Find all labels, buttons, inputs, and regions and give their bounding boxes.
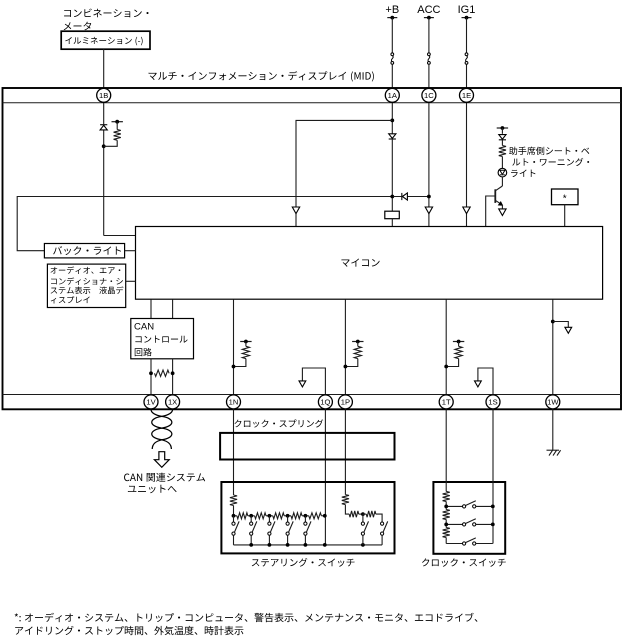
wire 1S into box [492, 409, 494, 543]
wire 1N from micom [233, 299, 235, 394]
1Q output stub [302, 368, 325, 395]
svg-text:1E: 1E [462, 91, 471, 100]
inline connector on IG1 [465, 53, 468, 56]
svg-text:1T: 1T [442, 398, 451, 407]
resistor R9 [445, 506, 447, 509]
wire 1P below [344, 409, 346, 494]
wire 1T into box [445, 409, 447, 491]
resistor R7 [363, 513, 366, 515]
steering switch label [252, 558, 355, 567]
svg-text:*: * [563, 194, 567, 205]
supply tap (seat belt light) [497, 127, 508, 129]
svg-text:1V: 1V [146, 398, 156, 407]
footnote line 1 [15, 613, 478, 622]
wire 1E internal [466, 102, 468, 226]
pin 1B [97, 88, 111, 102]
resistor R6 [349, 511, 359, 517]
wire 1T from micom [445, 299, 447, 394]
svg-text:1Q: 1Q [320, 398, 330, 407]
ladder node 5 [304, 514, 308, 518]
switch SW9 [446, 523, 462, 525]
clock switch box [433, 482, 505, 554]
ladder resistor 1 [234, 515, 237, 517]
resistor R5 (1P feed) [342, 495, 349, 505]
input arrow 1C [425, 207, 432, 214]
svg-text:1X: 1X [168, 398, 177, 407]
steering switch box [221, 482, 394, 553]
input arrow at x296 [292, 207, 299, 214]
dimmer bus wire y196.5 [17, 197, 392, 251]
node junction 1B/resistor [102, 144, 106, 148]
ladder node 3 [268, 514, 272, 518]
svg-text:IG1: IG1 [458, 4, 476, 16]
svg-text:CAN: CAN [134, 322, 154, 333]
clock switch label [422, 558, 506, 566]
pin 1X [166, 395, 180, 409]
wire 1Q below [324, 409, 326, 545]
resistor R10 [445, 524, 447, 527]
diode D2 on 1A line [389, 138, 396, 140]
pullup resistor at 1T [453, 341, 464, 343]
wire ACC to MID [428, 64, 430, 88]
switch common bus [234, 544, 383, 546]
microcomputer box [136, 227, 603, 300]
pin 1A [385, 88, 399, 102]
resistor R8 [443, 491, 450, 501]
twisted pair 1V/1X [151, 409, 172, 449]
power terminal +B [387, 17, 397, 19]
svg-text:+B: +B [385, 4, 399, 16]
MID box outline [3, 88, 622, 409]
svg-text:1A: 1A [388, 91, 398, 100]
wire +B drop [391, 18, 393, 53]
svg-text:ACC: ACC [417, 4, 440, 16]
wires micom to CAN circuit [150, 299, 152, 318]
wire 1B internal [103, 102, 105, 235]
pin 1E [460, 88, 474, 102]
pin 1S [486, 395, 500, 409]
resistor R1 (backlight pullup) [116, 122, 118, 130]
pin 1Q [318, 395, 332, 409]
diode D4 [501, 128, 503, 134]
wire 1W to ground [552, 409, 554, 450]
internal supply tap (backlight) [112, 121, 123, 123]
combination meter label [64, 9, 148, 18]
pin 1N [227, 395, 241, 409]
junction dots clock switch right [491, 505, 495, 509]
inline connector on +B [391, 53, 394, 56]
chassis ground [547, 449, 560, 451]
resistor R4 (1N ladder feed) [230, 495, 237, 506]
ladder resistor 2 [251, 515, 254, 517]
wire 1P from micom [344, 299, 346, 394]
ladder resistor 4 [288, 515, 291, 517]
diode D1 on 1B line [100, 124, 107, 126]
junction 1A / dimmer bus [390, 195, 394, 199]
transistor Q1 [501, 177, 503, 186]
junction 1C / dimmer bus [427, 195, 431, 199]
pin 1P [338, 395, 352, 409]
wire from asterisk box [564, 205, 566, 227]
wire IG1 to MID [466, 64, 468, 88]
seat belt light label [509, 147, 589, 155]
junction dots clock switch left [444, 505, 448, 509]
switch SW4 [287, 516, 289, 522]
pin 1V [144, 395, 158, 409]
svg-text:1P: 1P [341, 398, 350, 407]
wire 1N below [233, 409, 235, 495]
1W branch arrow [551, 320, 555, 324]
switch SW5 [304, 516, 306, 522]
wire 1A branch to micom input [296, 120, 392, 226]
clock spring label [234, 419, 323, 427]
power terminal ACC [424, 17, 434, 19]
CAN units label [124, 473, 205, 482]
svg-text:1B: 1B [99, 91, 108, 100]
svg-text:1W: 1W [547, 398, 559, 407]
ladder resistor 3 [269, 515, 272, 517]
footnote line 2 [15, 626, 243, 635]
audio LCD box [47, 264, 125, 307]
illumination (-) box [61, 31, 150, 49]
wire 1A internal [391, 102, 393, 211]
bottom connector strip line [3, 394, 622, 396]
diode D3 on dimmer bus [393, 196, 429, 198]
ladder resistor 5 [305, 515, 308, 517]
emitter output arrow [501, 205, 503, 209]
top connector strip line [3, 102, 622, 104]
pin 1W [546, 395, 560, 409]
MID title [149, 71, 374, 81]
ladder node 4 [286, 514, 290, 518]
wire ACC drop [428, 18, 430, 53]
ladder node 1 [232, 514, 236, 518]
base wire to micom [486, 196, 496, 227]
ladder node 6 [323, 514, 327, 518]
switch SW1 [233, 516, 235, 522]
ladder node 2 [249, 514, 253, 518]
svg-text:1N: 1N [229, 398, 239, 407]
CAN control circuit box [131, 319, 194, 359]
wire audio box to micom [126, 280, 136, 282]
input arrow 1E [463, 207, 470, 214]
svg-text:1C: 1C [424, 91, 434, 100]
svg-text:1S: 1S [488, 398, 497, 407]
wire 1B drop [103, 49, 105, 88]
component (fuse) on 1A line [385, 211, 400, 219]
wires CAN box to pins [150, 359, 152, 395]
terminating resistor R3 [155, 370, 170, 376]
switch SW6 [362, 514, 364, 522]
switch SW7 [381, 522, 384, 525]
switch SW10 [446, 543, 462, 545]
switch SW3 [268, 516, 270, 522]
wire IG1 drop [466, 18, 468, 53]
switch SW8 [446, 505, 462, 507]
wire 1W from micom [552, 299, 554, 394]
wire backlight to micom [125, 250, 136, 252]
pullup resistor at 1N [240, 341, 251, 343]
1S output stub [478, 368, 493, 395]
pullup resistor at 1P [352, 341, 363, 343]
resistor R2 [501, 140, 503, 146]
asterisk box [552, 189, 579, 205]
lamp (LED) [498, 168, 507, 177]
pin 1C [422, 88, 436, 102]
wire +B to MID [391, 64, 393, 88]
wire 1C internal [428, 102, 430, 226]
pin 1T [439, 395, 453, 409]
inline connector on ACC [428, 53, 431, 56]
power terminal IG1 [462, 17, 472, 19]
clock spring box [220, 433, 394, 460]
switch SW2 [250, 516, 252, 522]
to-CAN hollow arrow [154, 452, 169, 468]
backlight box [44, 244, 124, 258]
junction 1A branch [390, 119, 394, 123]
